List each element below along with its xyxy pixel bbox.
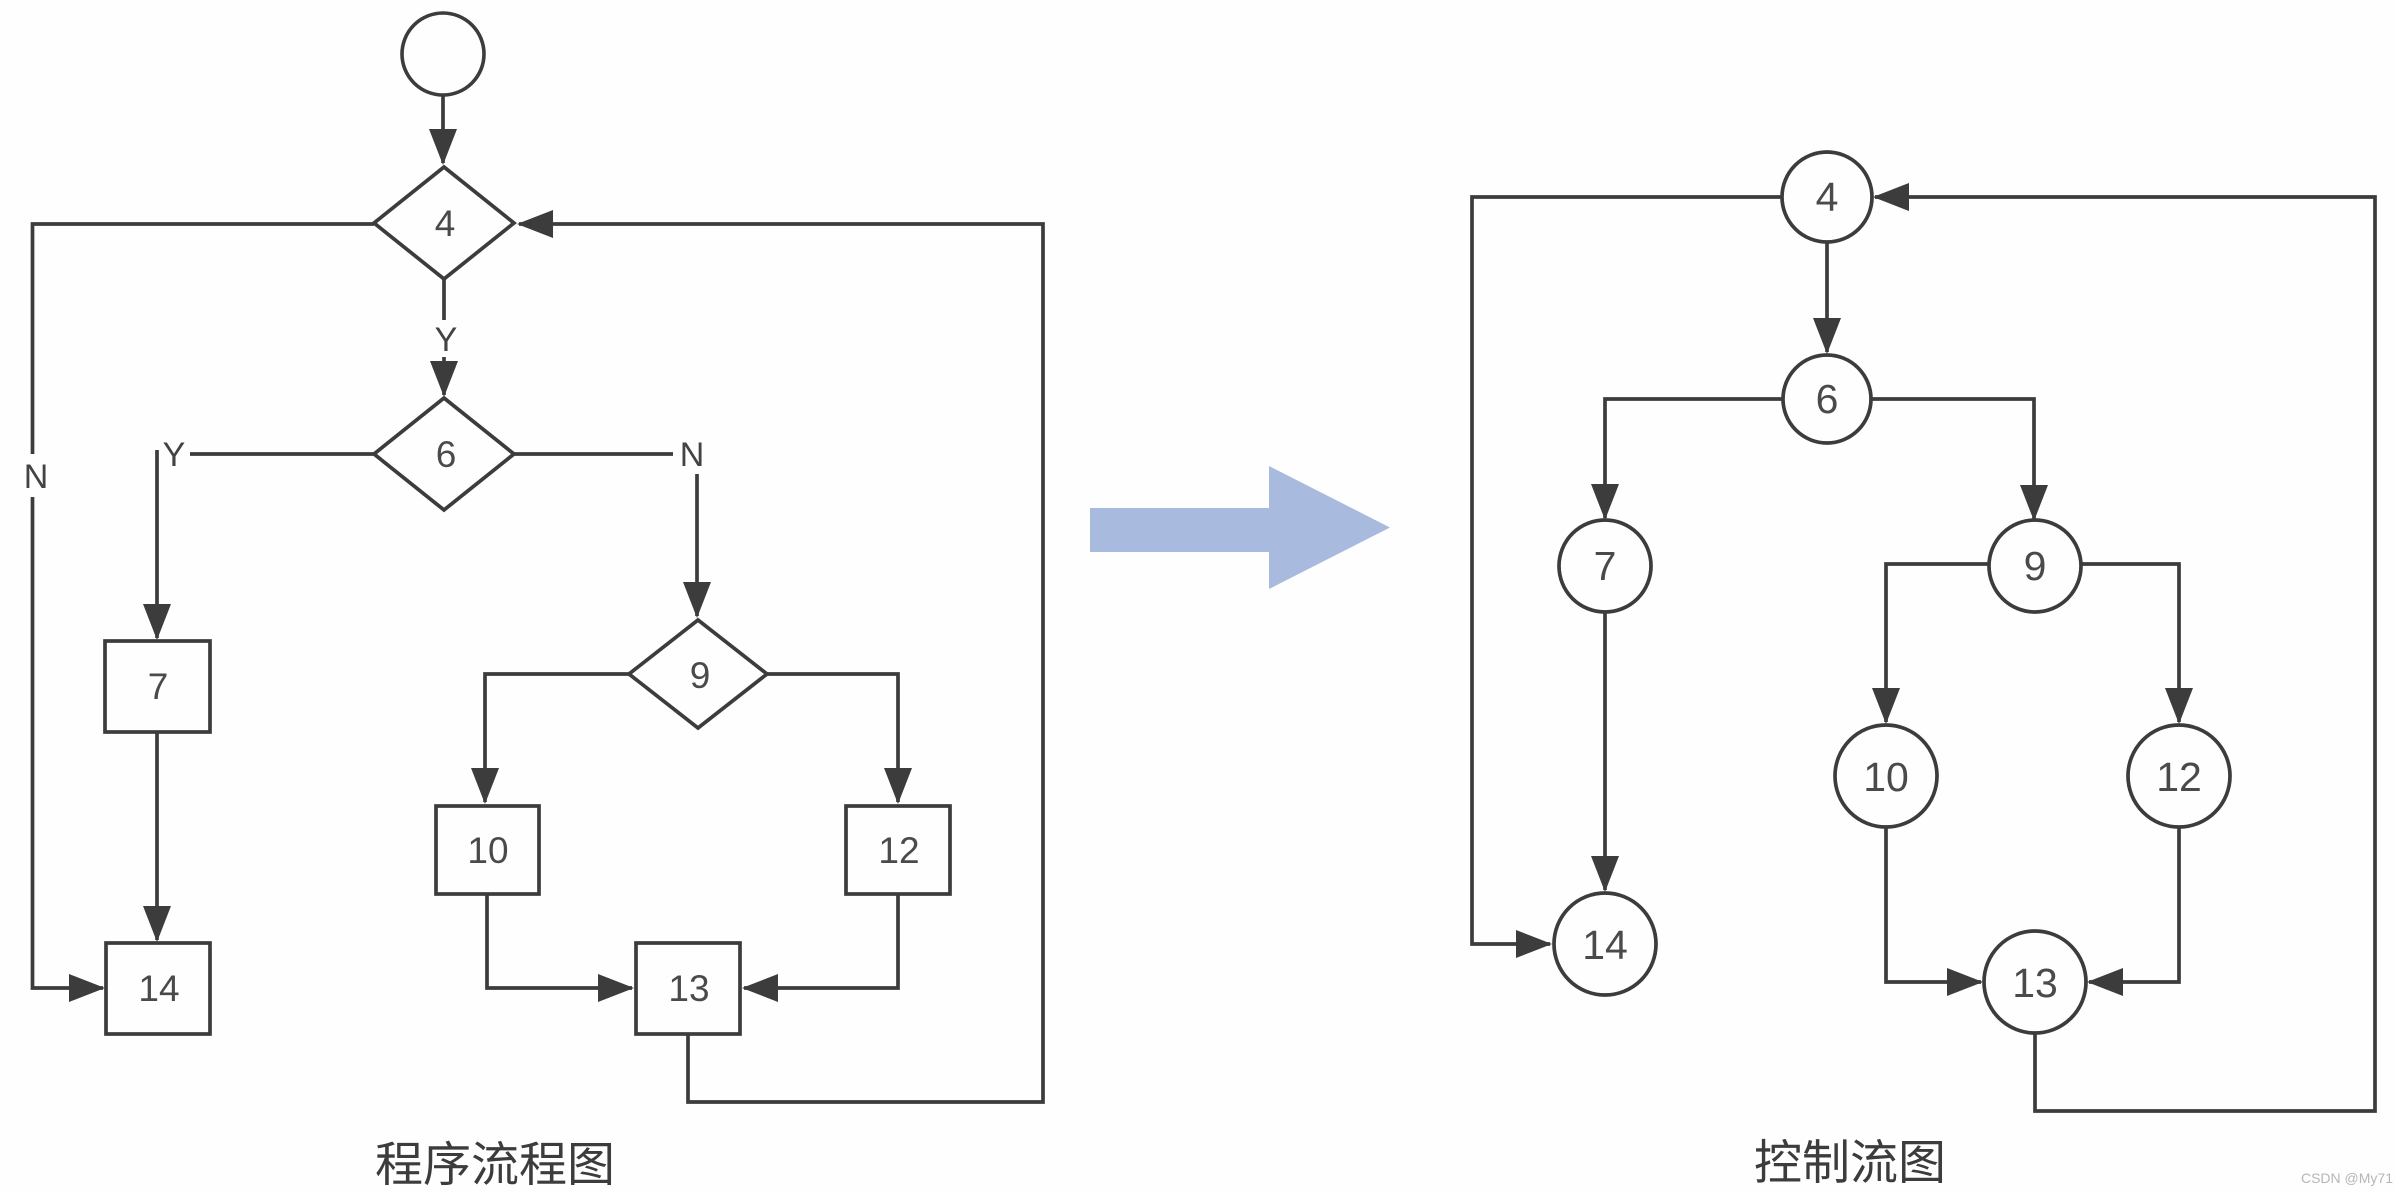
node labels left flowchart (138, 203, 919, 1009)
decision diamond 4 (374, 167, 514, 279)
svg-text:4: 4 (1816, 174, 1839, 220)
wire 4 left N: horizontal (33, 224, 375, 454)
process box 14 (106, 943, 210, 1034)
svg-text:14: 14 (1582, 922, 1628, 968)
edge loop 13 back to 4 (1875, 197, 2375, 1111)
edge 9 to 10 (1886, 564, 1989, 722)
node circle 10 (1835, 725, 1937, 827)
edge 6 to 7 (1605, 399, 1783, 518)
wire Y arrow into diamond 6 (442, 357, 446, 395)
edge 12 to 13 (2089, 827, 2179, 982)
svg-text:9: 9 (690, 655, 711, 696)
edge 10 to 13 (1886, 827, 1981, 982)
svg-text:9: 9 (2024, 543, 2047, 589)
decision diamond 9 (629, 620, 767, 728)
node circle 12 (2128, 725, 2230, 827)
node circle 7 (1559, 520, 1651, 612)
Y N branch labels (24, 321, 705, 496)
node circle 6 (1783, 355, 1871, 443)
node circle 14 (1554, 893, 1656, 995)
wire 12 to 13 (744, 894, 898, 988)
svg-text:6: 6 (436, 434, 457, 475)
big blue transform arrow (1090, 466, 1390, 589)
svg-text:4: 4 (435, 203, 456, 244)
edge 9 to 12 (2081, 564, 2179, 722)
caption 控制流图 (right) (1756, 1139, 1942, 1183)
svg-text:12: 12 (878, 830, 919, 871)
svg-text:10: 10 (467, 830, 508, 871)
wire N branch down into diamond 9 (695, 474, 699, 616)
process box 12 (846, 806, 950, 894)
svg-text:6: 6 (1816, 376, 1839, 422)
process box 7 (105, 641, 210, 732)
wire 4 down (Y branch) upper segment (442, 279, 446, 320)
svg-text:13: 13 (668, 968, 709, 1009)
svg-text:N: N (24, 458, 49, 496)
svg-text:13: 13 (2012, 960, 2058, 1006)
node circle 9 (1989, 520, 2081, 612)
decision diamond 6 (374, 398, 514, 510)
wire start to decision 4 (441, 95, 445, 163)
svg-text:Y: Y (435, 321, 458, 359)
svg-text:10: 10 (1863, 754, 1909, 800)
wire 10 to 13 (487, 894, 632, 988)
edge 4 to 6 (1825, 242, 1829, 352)
wire N continue down and into box 14 (33, 497, 104, 988)
node circle 13 (1984, 931, 2086, 1033)
svg-text:CSDN @My71: CSDN @My71 (2301, 1170, 2393, 1186)
edge 7 to 14 (1603, 612, 1607, 890)
svg-text:12: 12 (2156, 754, 2202, 800)
svg-text:Y: Y (163, 436, 186, 474)
svg-text:14: 14 (138, 968, 179, 1009)
wire 7 to 14 (155, 732, 159, 940)
wire loop 13 back to 4 (519, 224, 1043, 1102)
edge 6 to 9 (1871, 399, 2034, 519)
process box 10 (436, 806, 539, 894)
node circle 4 (1782, 152, 1872, 242)
wire Y branch down into box 7 (155, 450, 159, 638)
edge 4 to 14 (1472, 197, 1782, 944)
caption 程序流程图 (left) (376, 1141, 611, 1186)
wire 9 right into box 12 (767, 674, 898, 802)
svg-text:7: 7 (1594, 543, 1617, 589)
svg-text:7: 7 (148, 666, 169, 707)
process box 13 (636, 943, 740, 1034)
wire 9 left into box 10 (485, 674, 629, 802)
wire 6 right toward N label (514, 452, 673, 456)
svg-text:N: N (680, 436, 705, 474)
wire 6 left toward Y label (190, 452, 374, 456)
start circle (402, 13, 484, 95)
node labels right graph (1582, 174, 2202, 1006)
